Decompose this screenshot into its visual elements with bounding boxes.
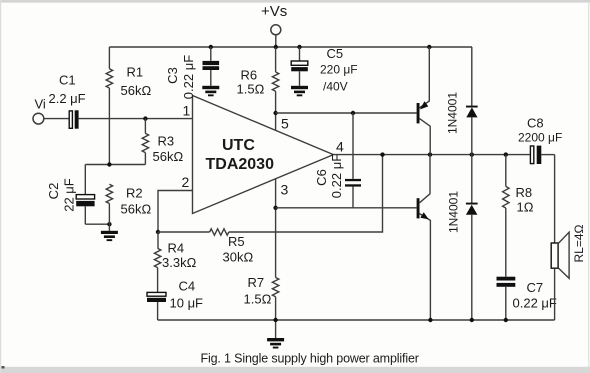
junction output at R8	[504, 152, 508, 156]
resistor R7	[244, 275, 279, 320]
wire speaker to bottom rail	[554, 268, 556, 320]
svg-text:C3: C3	[165, 67, 180, 84]
svg-text:R6: R6	[241, 68, 258, 83]
junction C6 top	[351, 111, 355, 115]
ground below C3	[202, 86, 219, 97]
wire bias node C2 to R3	[85, 164, 145, 166]
svg-text:3.3kΩ: 3.3kΩ	[162, 255, 197, 270]
resistor R5	[210, 229, 254, 265]
wire pin3 node to Q2 base	[276, 207, 417, 209]
capacitor C5 220uF/40V	[291, 46, 357, 94]
svg-text:/40V: /40V	[323, 80, 348, 94]
page frame top bar	[0, 0, 590, 3]
svg-text:C6: C6	[314, 169, 329, 186]
junction pin3 node	[273, 206, 277, 210]
junction bottom rail at C7	[504, 318, 508, 322]
wire pin3 riser	[275, 179, 277, 278]
svg-text:4: 4	[336, 139, 344, 155]
junction bottom rail at Q2 emitter	[428, 318, 432, 322]
terminal Vi input	[33, 97, 46, 125]
capacitor C2 22uF	[46, 165, 95, 225]
svg-text:0.22 μF: 0.22 μF	[181, 55, 196, 99]
svg-text:0.22 μF: 0.22 μF	[329, 154, 344, 198]
capacitor C8 2200uF	[518, 116, 562, 165]
svg-text:C7: C7	[527, 280, 544, 295]
svg-text:R1: R1	[127, 65, 144, 80]
svg-text:5: 5	[281, 116, 289, 132]
terminal +Vs	[271, 25, 281, 35]
wire output pin4 rail	[333, 154, 530, 156]
svg-text:10 μF: 10 μF	[170, 296, 204, 311]
ground below R7	[267, 320, 284, 349]
resistor R4	[154, 232, 196, 292]
op-amp U1 UTC TDA2030	[193, 96, 334, 214]
wire pin5 node to Q1 base	[276, 112, 417, 114]
svg-text:C5: C5	[327, 46, 344, 61]
capacitor C3 0.22uF	[165, 47, 219, 99]
svg-text:220 μF: 220 μF	[320, 63, 358, 77]
pin 1 label	[183, 103, 191, 119]
junction top rail at C5	[297, 45, 301, 49]
svg-text:1Ω: 1Ω	[517, 200, 534, 215]
junction top rail at C3	[209, 45, 213, 49]
pin 2 label	[182, 174, 190, 190]
diode D2 1N4001	[447, 155, 478, 320]
wire C8 to speaker	[554, 155, 556, 243]
junction input wire at R3	[143, 116, 147, 120]
wire pin2 stub	[158, 191, 193, 233]
junction output at R5 riser	[380, 152, 384, 156]
pin 3 label	[281, 182, 289, 198]
transistor Q2	[417, 155, 431, 320]
ground below C5	[291, 86, 308, 97]
svg-text:2: 2	[182, 174, 190, 190]
wire feedback node to R5	[158, 231, 210, 233]
wire R5 to output riser	[229, 155, 383, 232]
svg-text:UTC: UTC	[222, 137, 255, 154]
junction bottom rail at R7	[273, 318, 277, 322]
resistor R8	[503, 155, 534, 277]
svg-text:RL=4Ω: RL=4Ω	[572, 224, 586, 262]
svg-text:Vi: Vi	[35, 97, 46, 112]
page frame right edge	[588, 2, 589, 367]
junction bias node at R1/R2	[107, 162, 111, 166]
wire C1 to pin1	[79, 118, 193, 120]
svg-text:C4: C4	[179, 279, 196, 294]
page frame left edge	[0, 0, 1, 373]
svg-text:1.5Ω: 1.5Ω	[237, 82, 265, 97]
junction pin5 node	[273, 111, 277, 115]
junction output at Q collectors	[428, 152, 432, 156]
wire bottom ground rail	[158, 319, 555, 321]
wire input to C1	[44, 118, 69, 120]
node +Vs label	[261, 3, 287, 20]
svg-text:1.5Ω: 1.5Ω	[244, 292, 272, 307]
svg-text:56kΩ: 56kΩ	[121, 202, 152, 217]
junction output at D1/D2	[470, 152, 474, 156]
capacitor C6 0.22uF	[314, 113, 361, 208]
svg-text:1N4001: 1N4001	[446, 92, 460, 134]
ground below R2	[101, 224, 118, 241]
svg-text:0.22 μF: 0.22 μF	[513, 296, 557, 311]
svg-text:Fig. 1 Single supply high powe: Fig. 1 Single supply high power amplifie…	[201, 352, 419, 366]
capacitor C4 10uF	[147, 279, 203, 321]
resistor R1	[106, 47, 151, 165]
svg-text:C1: C1	[59, 73, 76, 88]
junction feedback node	[156, 230, 160, 234]
svg-text:C8: C8	[527, 116, 544, 131]
junction R2 bottom	[107, 222, 111, 226]
svg-text:30kΩ: 30kΩ	[223, 250, 254, 265]
wire +Vs stem	[275, 35, 277, 47]
svg-text:TDA2030: TDA2030	[206, 156, 275, 173]
svg-text:R3: R3	[158, 134, 175, 149]
capacitor C1 2.2uF	[49, 73, 86, 129]
svg-text:R5: R5	[228, 234, 245, 249]
svg-text:2200 μF: 2200 μF	[518, 131, 562, 145]
junction bottom rail at D2	[470, 318, 474, 322]
svg-text:56kΩ: 56kΩ	[153, 149, 184, 164]
svg-text:1N4001: 1N4001	[447, 191, 461, 233]
svg-text:2.2 μF: 2.2 μF	[49, 91, 86, 106]
resistor R2	[106, 184, 151, 224]
wire C2 bottom to R2 bottom	[85, 223, 109, 225]
svg-text:56kΩ: 56kΩ	[121, 83, 152, 98]
junction top rail at Q1 emitter	[427, 45, 431, 49]
transistor Q1	[417, 47, 431, 155]
page frame bottom bar	[0, 367, 590, 373]
caption Fig. 1	[2, 366, 5, 369]
svg-text:+Vs: +Vs	[261, 3, 287, 20]
svg-text:R8: R8	[516, 185, 533, 200]
wire top supply rail	[109, 46, 472, 48]
pin 4 label	[336, 139, 344, 155]
resistor R6	[237, 47, 279, 130]
svg-text:1: 1	[183, 103, 191, 119]
svg-text:C2: C2	[46, 183, 61, 200]
pin 5 label	[281, 116, 289, 132]
resistor R3	[142, 119, 183, 165]
svg-text:R2: R2	[126, 186, 143, 201]
svg-text:R7: R7	[248, 275, 265, 290]
diode D1 1N4001	[446, 47, 478, 155]
svg-text:22 μF: 22 μF	[62, 178, 77, 212]
svg-text:R4: R4	[168, 241, 185, 256]
junction top rail at +Vs	[274, 45, 278, 49]
speaker RL=4ohm	[551, 224, 586, 278]
capacitor C7 0.22uF	[497, 277, 557, 320]
svg-text:3: 3	[281, 182, 289, 198]
